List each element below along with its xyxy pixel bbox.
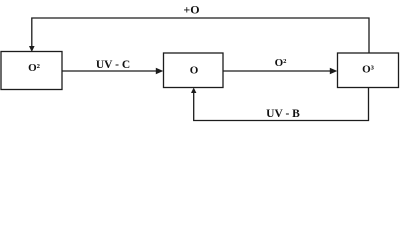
svg-text:UV - C: UV - C (96, 59, 130, 71)
svg-text:O: O (190, 65, 199, 77)
svg-text:UV - B: UV - B (266, 108, 300, 120)
box O (middle reservoir) (164, 53, 224, 88)
box O2 (left reservoir) (1, 52, 62, 90)
wire UV-C arrow O2 to O (62, 68, 163, 75)
svg-text:O²: O² (275, 57, 288, 69)
wire O2 arrow O to O3 (223, 68, 337, 75)
box O3 (right reservoir) (338, 53, 399, 88)
wire bottom feedback O3 to O (191, 88, 369, 121)
svg-text:+O: +O (183, 3, 199, 17)
svg-text:O²: O² (28, 62, 41, 74)
svg-text:O³: O³ (362, 64, 375, 76)
wire top feedback O3 to O2 (29, 18, 369, 53)
